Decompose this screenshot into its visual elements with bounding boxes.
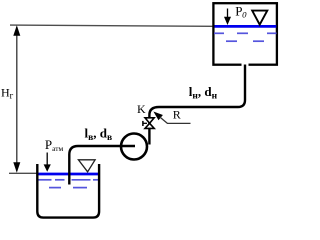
svg-text:R: R xyxy=(173,108,181,122)
svg-text:lв, dв: lв, dв xyxy=(85,125,113,143)
svg-text:Hг: Hг xyxy=(1,86,14,101)
svg-text:lн, dн: lн, dн xyxy=(189,84,218,102)
svg-text:K: K xyxy=(137,102,146,116)
svg-text:Pатм: Pатм xyxy=(45,137,64,153)
svg-text:P0: P0 xyxy=(235,3,247,19)
